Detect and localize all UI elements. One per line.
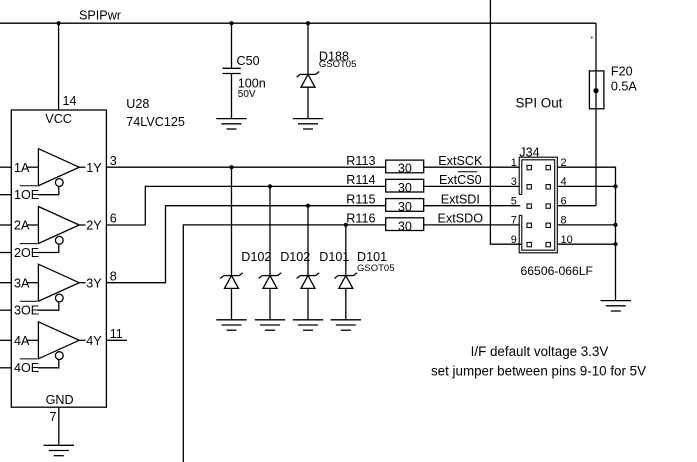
ground symbol below diode D101 #3 — [293, 319, 323, 321]
svg-text:4Y: 4Y — [86, 334, 102, 348]
node junction row to diode D101 #4 — [344, 223, 348, 227]
diode D188 GSOT05 zener symbol — [300, 73, 316, 75]
svg-text:74LVC125: 74LVC125 — [126, 115, 185, 129]
wire 1Y pin 3 to R113 row — [106, 166, 385, 168]
ground symbol below diode D102 #1 — [216, 319, 246, 321]
wire 3OE enable to bubble — [38, 302, 59, 310]
buffer gate 1 of U28 triangle — [38, 149, 79, 186]
wire 2OE input stub — [0, 252, 11, 254]
wire J34 pin 8 to ground rail — [557, 224, 615, 226]
wire SPIPwr rail to fuse F20 — [595, 23, 597, 71]
wire 3Y pin 8 up to R115 row — [106, 206, 385, 283]
svg-text:C50: C50 — [237, 54, 260, 68]
node junction SPIPwr to D188 — [306, 21, 310, 25]
svg-text:R116: R116 — [346, 212, 375, 226]
resistor R115 body — [386, 199, 424, 212]
wire 1OE input stub — [0, 194, 11, 196]
wire R115 to J34 with net ExtSDI — [424, 205, 521, 207]
node junction row to diode D101 #3 — [306, 204, 310, 208]
wire 4OE input stub — [0, 367, 11, 369]
svg-text:5: 5 — [511, 195, 517, 207]
wire J34 pin 2 to ground rail — [557, 167, 615, 300]
wire GND pin 7 stem — [58, 407, 60, 445]
connector J34 pin pads 2x5 — [527, 165, 531, 169]
wire diode D101 #4 anode lead — [345, 288, 347, 319]
svg-text:F20: F20 — [611, 64, 633, 78]
wire diode D101 #3 cathode lead — [307, 206, 309, 276]
ground symbol below C50 — [216, 118, 246, 120]
wire 4A to gate 4 triangle — [26, 339, 38, 341]
node junction SPIPwr to C50 — [229, 21, 233, 25]
wire R114 to J34 with net ExtCS0 — [424, 185, 520, 187]
ground symbol at U28 pin 7 — [44, 444, 74, 446]
svg-text:30: 30 — [398, 181, 412, 195]
svg-text:1: 1 — [511, 157, 517, 169]
connector J34 inner border — [522, 160, 555, 250]
wire J34 pin 6 to fuse F20 — [557, 205, 596, 207]
wire diode D102 #2 cathode lead — [269, 186, 271, 275]
op-amp buffer IC U28 74LVC125 body box — [11, 110, 106, 407]
svg-text:50V: 50V — [238, 89, 256, 100]
wire 4A input stub — [0, 339, 11, 341]
connector J34 outer border — [519, 157, 557, 253]
buffer gate 3 of U28 triangle — [38, 264, 79, 301]
wire diode D101 #3 anode lead — [307, 288, 309, 319]
svg-text:2OE: 2OE — [14, 246, 39, 260]
svg-text:U28: U28 — [126, 97, 149, 111]
svg-text:ExtSDI: ExtSDI — [441, 193, 480, 207]
capacitor C50 plates — [223, 67, 241, 69]
connector J34 border gap caps — [519, 193, 522, 195]
svg-text:VCC: VCC — [45, 112, 72, 126]
resistor R116 body — [386, 218, 424, 231]
wire 1A to gate 1 triangle — [26, 166, 38, 168]
svg-text:7: 7 — [511, 215, 517, 227]
ground symbol below diode D101 #4 — [331, 319, 361, 321]
node junction row to diode D102 #2 — [268, 184, 272, 188]
wire D188 anode lead — [307, 87, 309, 118]
wire 1OE enable to bubble — [38, 186, 59, 194]
ground symbol below D188 — [293, 118, 323, 120]
svg-text:3: 3 — [511, 176, 517, 188]
svg-text:ExtCS0: ExtCS0 — [439, 173, 482, 187]
svg-text:3: 3 — [110, 154, 117, 168]
diode D101 #3 zener symbol — [300, 275, 316, 277]
wire SPIPwr power rail — [0, 22, 596, 24]
fuse F20 body — [589, 71, 604, 109]
inversion bubble gate 2 — [55, 236, 63, 244]
wire 2A to gate 2 triangle — [26, 224, 38, 226]
wire off-page feed to R116 row — [183, 225, 385, 462]
ground symbol below diode D102 #2 — [255, 319, 285, 321]
wire 4OE enable to bubble — [38, 360, 59, 368]
node junction pin 4 ground rail — [613, 184, 617, 188]
wire VCC pin 14 drop to U28 — [58, 23, 60, 110]
wire J34 pin 4 to ground rail — [557, 185, 615, 187]
wire diode D102 #2 anode lead — [269, 288, 271, 319]
svg-text:ExtSCK: ExtSCK — [438, 154, 483, 168]
wire off-page feed down to J34 pin 9 — [490, 0, 521, 244]
wire 4Y pin 11 stub — [106, 339, 127, 341]
svg-text:GND: GND — [46, 393, 74, 407]
diode D102 #2 zener symbol — [262, 275, 278, 277]
wire diode D102 #1 cathode lead — [231, 167, 233, 275]
wire diode D101 #4 cathode lead — [345, 225, 347, 276]
wire C50 bottom lead — [231, 74, 233, 119]
svg-text:9: 9 — [511, 234, 517, 246]
svg-text:GSOT05: GSOT05 — [319, 59, 357, 70]
svg-text:D102: D102 — [241, 250, 271, 264]
svg-text:30: 30 — [398, 219, 412, 233]
svg-text:ExtSDO: ExtSDO — [438, 212, 484, 226]
svg-text:1OE: 1OE — [14, 188, 39, 202]
inversion bubble gate 4 — [55, 352, 63, 360]
node junction row to diode D102 #1 — [229, 165, 233, 169]
svg-text:GSOT05: GSOT05 — [357, 263, 395, 274]
svg-text:I/F default voltage 3.3V: I/F default voltage 3.3V — [471, 344, 609, 359]
wire 2OE enable to bubble — [38, 244, 59, 252]
svg-text:3OE: 3OE — [14, 304, 39, 318]
svg-text:30: 30 — [398, 162, 412, 176]
wire diode D102 #1 anode lead — [231, 288, 233, 319]
svg-text:4OE: 4OE — [14, 361, 39, 375]
svg-text:set jumper between pins 9-10 f: set jumper between pins 9-10 for 5V — [431, 364, 646, 379]
svg-text:6: 6 — [110, 212, 117, 226]
ground symbol at J34 ground rail — [601, 300, 631, 302]
wire C50 top lead — [231, 23, 233, 68]
svg-text:11: 11 — [110, 327, 123, 341]
svg-text:0.5A: 0.5A — [611, 80, 638, 94]
inversion bubble gate 1 — [55, 179, 63, 187]
svg-text:SPI Out: SPI Out — [516, 95, 563, 110]
diode D102 #1 zener symbol — [224, 275, 240, 277]
svg-text:3Y: 3Y — [86, 276, 102, 290]
wire 2Y pin 6 up to R114 row — [106, 186, 385, 225]
svg-text:D102: D102 — [280, 250, 310, 264]
wire J34 pin 10 to ground rail — [557, 243, 615, 245]
svg-text:7: 7 — [50, 410, 57, 424]
wire 3OE input stub — [0, 309, 11, 311]
buffer gate 2 of U28 triangle — [38, 207, 79, 244]
wire 2A input stub — [0, 224, 11, 226]
svg-text:14: 14 — [63, 94, 77, 108]
node SPIPwr junction at U28 VCC drop — [57, 21, 61, 25]
wire 1A input stub — [0, 166, 11, 168]
node junction pin 10 ground rail — [613, 242, 617, 246]
wire gate 3 output to 3Y — [79, 282, 85, 284]
wire gate 2 output to 2Y — [79, 224, 85, 226]
svg-text:R113: R113 — [346, 154, 375, 168]
svg-text:2Y: 2Y — [86, 219, 102, 233]
svg-text:R114: R114 — [346, 173, 375, 187]
wire 3A input stub — [0, 282, 11, 284]
svg-text:30: 30 — [398, 200, 412, 214]
wire R113 to J34 with net ExtSCK — [424, 166, 520, 168]
wire fuse F20 to J34 pin 6 — [595, 109, 597, 206]
wire 3A to gate 3 triangle — [26, 282, 38, 284]
svg-text:R115: R115 — [346, 192, 375, 206]
svg-text:66506-066LF: 66506-066LF — [521, 264, 594, 278]
svg-text:SPIPwr: SPIPwr — [79, 9, 121, 23]
inversion bubble gate 3 — [55, 294, 63, 302]
wire gate 4 output to 4Y — [79, 339, 85, 341]
stray dot artifact — [591, 37, 593, 39]
resistor R113 body — [386, 160, 424, 173]
resistor R114 body — [386, 179, 424, 192]
svg-text:8: 8 — [110, 269, 117, 283]
wire R116 to J34 with net ExtSDO — [424, 224, 520, 226]
wire D188 cathode lead — [307, 23, 309, 74]
svg-text:D101: D101 — [357, 250, 387, 264]
diode D101 #4 zener symbol — [338, 275, 354, 277]
svg-text:D101: D101 — [319, 250, 349, 264]
wire gate 1 output to 1Y — [79, 166, 85, 168]
buffer gate 4 of U28 triangle — [38, 322, 79, 359]
node junction pin 8 ground rail — [613, 223, 617, 227]
svg-text:1Y: 1Y — [86, 161, 102, 175]
